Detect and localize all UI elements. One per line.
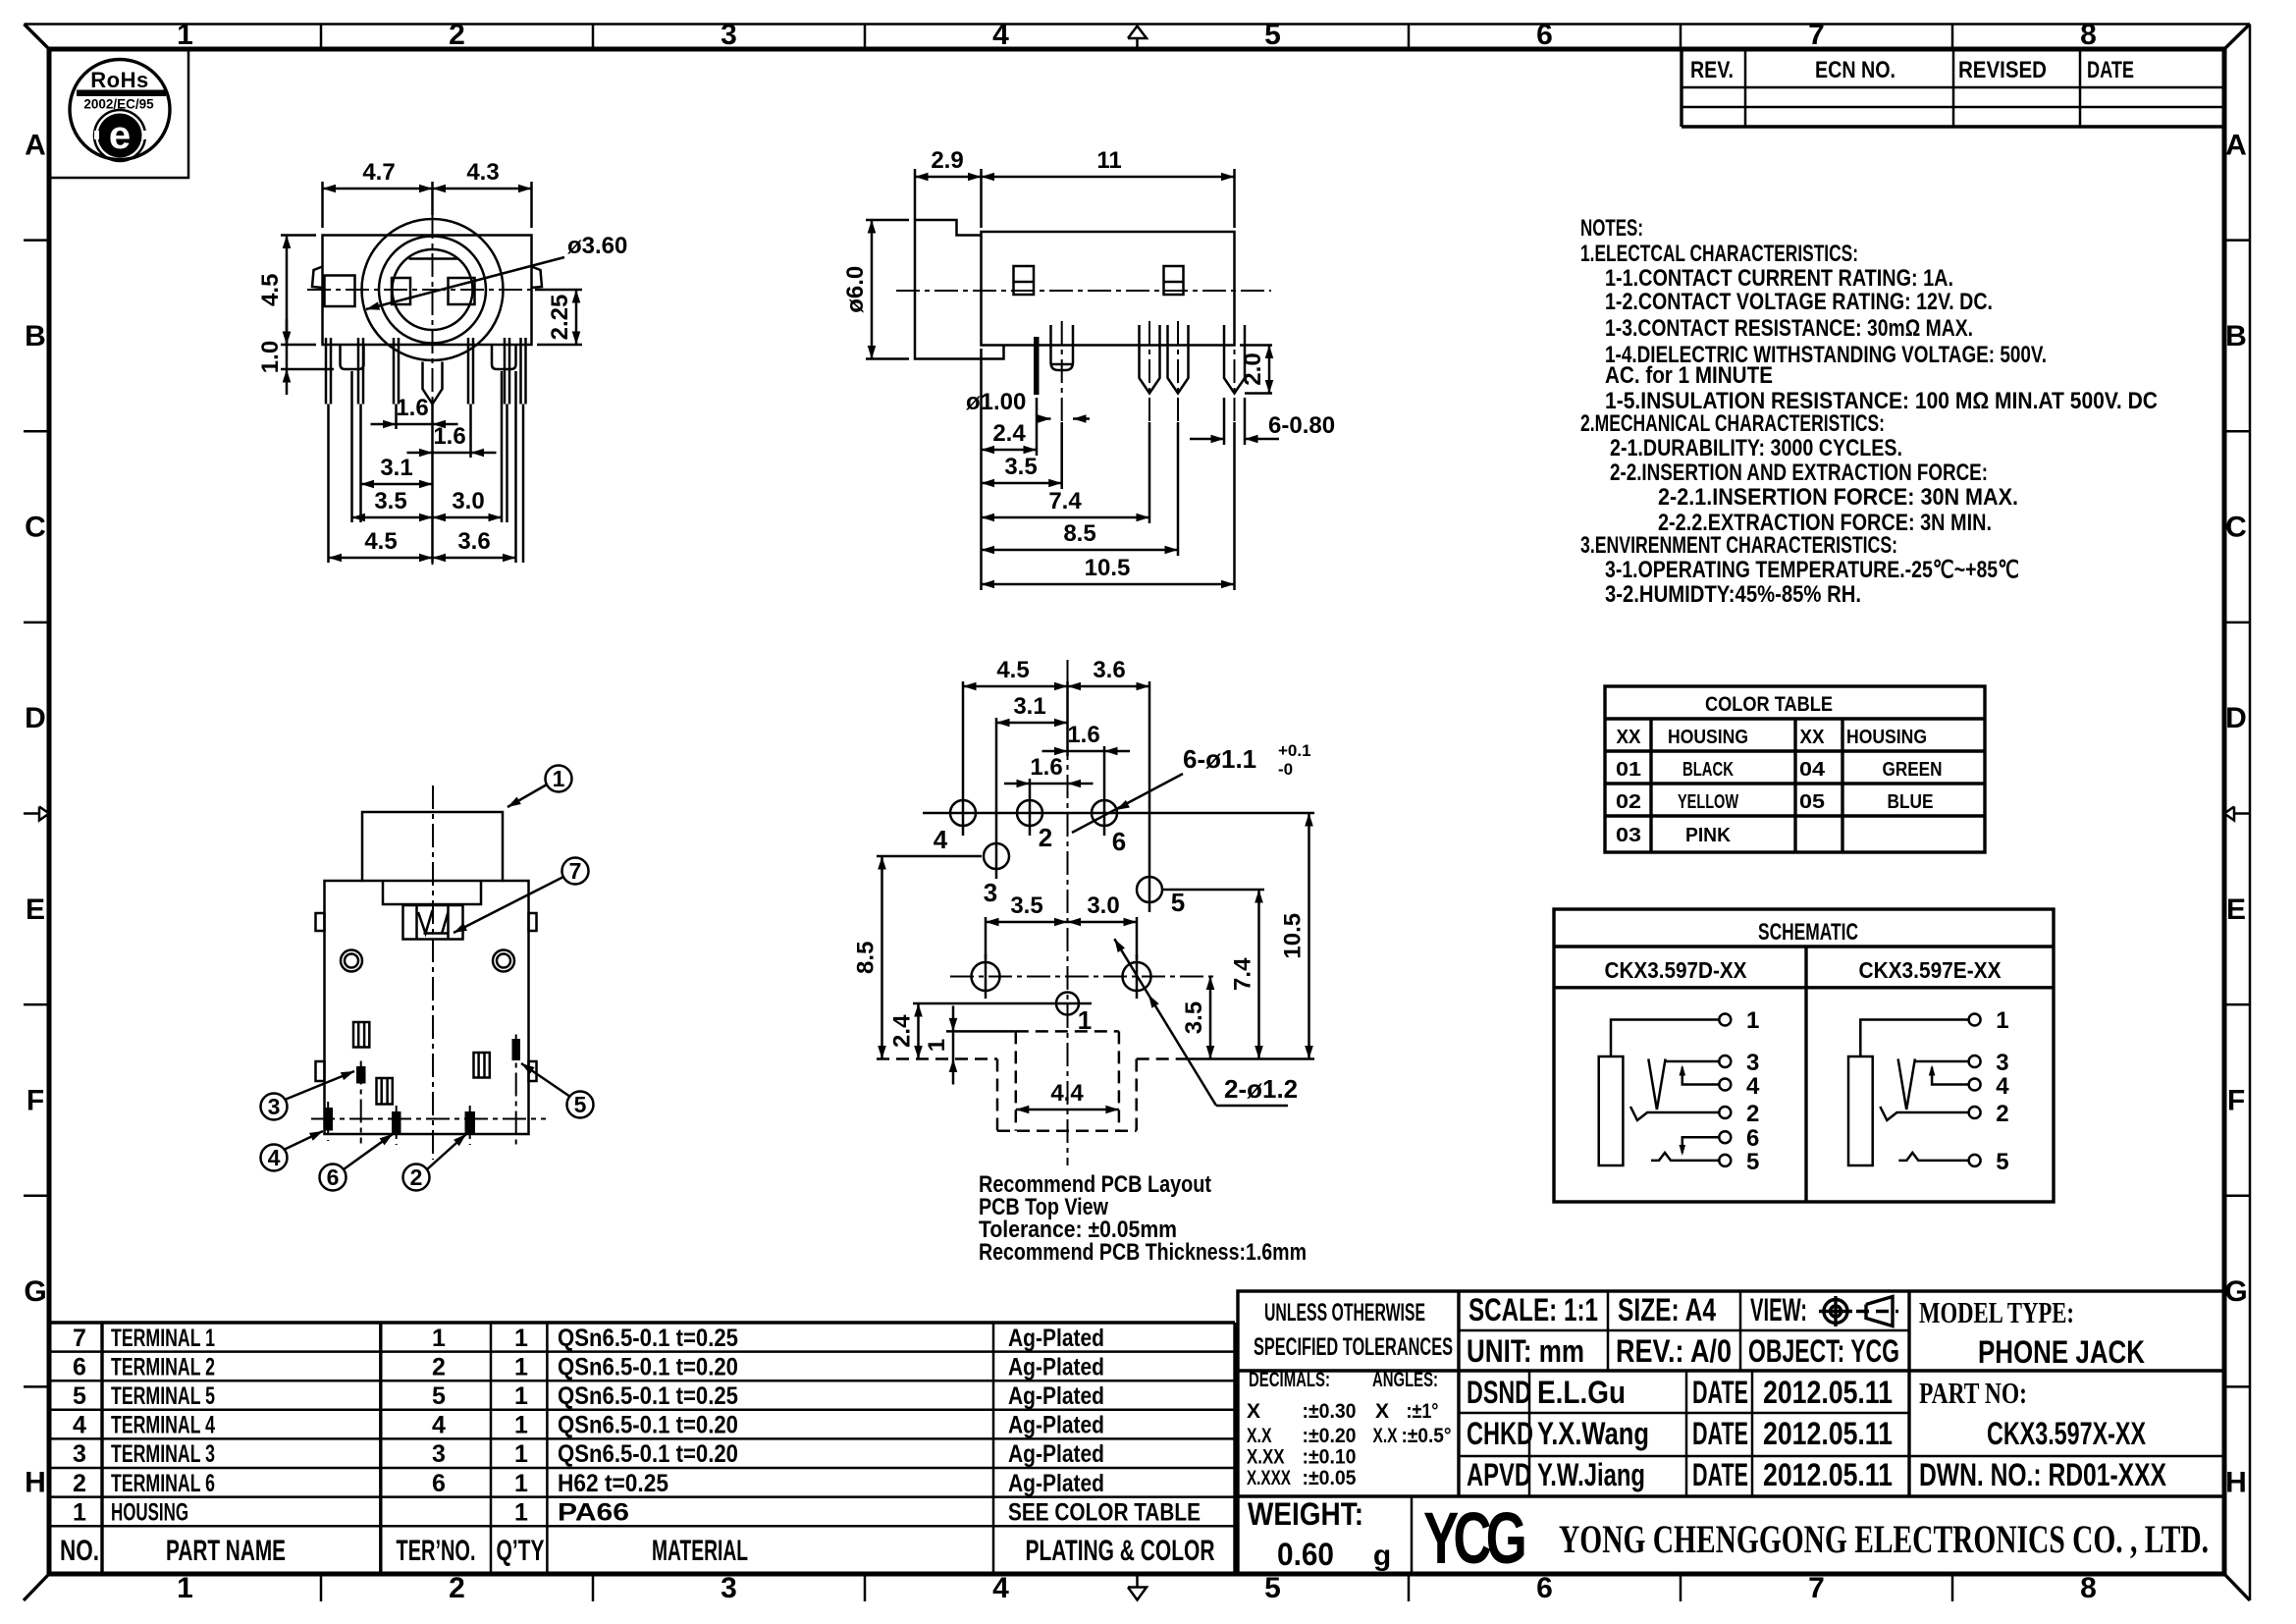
svg-text:X.X: X.X	[1373, 1425, 1398, 1447]
row tick right	[2224, 430, 2250, 433]
svg-text:3.6: 3.6	[457, 528, 490, 555]
corner diagonal top-right	[2224, 25, 2250, 50]
svg-text:G: G	[2224, 1275, 2247, 1308]
svg-text:SPECIFIED TOLERANCES: SPECIFIED TOLERANCES	[1254, 1333, 1453, 1361]
svg-text:4.5: 4.5	[257, 274, 284, 306]
dimension 7.4 side	[982, 516, 1150, 519]
column tick top	[592, 25, 595, 50]
svg-text::±0.20: :±0.20	[1303, 1425, 1357, 1447]
svg-text:REV.: REV.	[1690, 57, 1734, 83]
svg-text:HOUSING: HOUSING	[111, 1498, 188, 1526]
top view terminal pin 3	[356, 1066, 366, 1084]
svg-text:2.25: 2.25	[547, 295, 573, 341]
svg-text:DATE: DATE	[1692, 1375, 1748, 1410]
svg-text:7: 7	[1808, 1572, 1825, 1604]
svg-text:H62 t=0.25: H62 t=0.25	[558, 1470, 668, 1497]
side view terminal pin 3 pointed	[1140, 325, 1160, 394]
svg-text:0.60: 0.60	[1277, 1537, 1334, 1572]
svg-text:5: 5	[574, 1092, 587, 1117]
centering mark bottom	[1128, 1588, 1147, 1600]
view cone symbol	[1866, 1297, 1893, 1326]
svg-text:4.7: 4.7	[362, 159, 395, 186]
pcb dimension 3.0 mid	[1068, 921, 1138, 924]
pcb hole 6	[1092, 800, 1117, 826]
column tick bottom	[1951, 1574, 1954, 1601]
svg-text:6: 6	[73, 1353, 86, 1380]
front view outer barrel circle	[362, 219, 504, 360]
dimension 10.5 side	[982, 583, 1235, 586]
outer right line	[2249, 25, 2252, 1601]
svg-text:3.1: 3.1	[1013, 693, 1045, 720]
corner diagonal top-left	[25, 25, 50, 50]
svg-text:C: C	[25, 512, 46, 544]
svg-text:OBJECT: YCG: OBJECT: YCG	[1748, 1333, 1899, 1369]
column tick bottom	[320, 1574, 323, 1601]
pcb extension lines mid	[985, 917, 988, 959]
svg-text:1: 1	[1996, 1007, 2008, 1034]
side view pin centerlines	[1061, 321, 1063, 422]
svg-text:5: 5	[432, 1382, 446, 1410]
recommended PCB layout drawing	[853, 657, 1315, 1266]
svg-text:1-1.CONTACT CURRENT RATING: 1: 1-1.CONTACT CURRENT RATING: 1A.	[1605, 265, 1953, 292]
svg-text:PINK: PINK	[1685, 825, 1732, 846]
schematic CKX3.597E-XX	[1848, 1007, 2009, 1175]
callout 5	[567, 1092, 594, 1118]
svg-text:REV.: A/0: REV.: A/0	[1616, 1333, 1732, 1369]
wire terminal 4 D	[1682, 1067, 1720, 1085]
svg-text:Ag-Plated: Ag-Plated	[1008, 1412, 1104, 1439]
terminal 1 D	[1719, 1014, 1731, 1026]
svg-text:Ag-Plated: Ag-Plated	[1008, 1470, 1104, 1497]
centering mark left	[24, 812, 39, 815]
break contact terminal 5 D	[1651, 1153, 1719, 1161]
RoHS black bar	[77, 90, 166, 97]
svg-text:B: B	[2225, 320, 2247, 352]
svg-text:QSn6.5-0.1 t=0.20: QSn6.5-0.1 t=0.20	[558, 1440, 738, 1468]
svg-text:E: E	[2226, 893, 2246, 926]
svg-text:XX: XX	[1800, 727, 1826, 748]
svg-text:10.5: 10.5	[1085, 555, 1131, 581]
pcb mounting hole right dia 1.2	[1123, 962, 1151, 991]
svg-text:2: 2	[410, 1164, 423, 1190]
callout 4	[261, 1145, 288, 1171]
svg-text:1-2.CONTACT VOLTAGE RATING: 12: 1-2.CONTACT VOLTAGE RATING: 12V. DC.	[1605, 289, 1993, 315]
svg-text:6: 6	[1746, 1125, 1759, 1152]
side view terminal pin 5 pointed	[1224, 325, 1245, 394]
svg-text:ANGLES:: ANGLES:	[1372, 1369, 1438, 1391]
svg-text:10.5: 10.5	[1280, 913, 1307, 959]
svg-text:2.4: 2.4	[889, 1014, 916, 1048]
svg-text:D: D	[25, 702, 46, 734]
extension lines front view	[321, 182, 324, 228]
dimension 1.6 first	[371, 423, 458, 426]
svg-text:3: 3	[432, 1440, 446, 1468]
column tick bottom	[864, 1574, 867, 1601]
front view jack hole circle	[393, 249, 473, 330]
color table	[1605, 686, 1985, 852]
centering mark top	[1128, 27, 1147, 39]
svg-text:YCG: YCG	[1423, 1497, 1524, 1579]
svg-text:1-3.CONTACT RESISTANCE: 30mΩ M: 1-3.CONTACT RESISTANCE: 30mΩ MAX.	[1605, 315, 1973, 342]
front view right mounting lug	[492, 345, 516, 369]
terminal 2 E	[1969, 1107, 1981, 1118]
svg-text:6-0.80: 6-0.80	[1268, 412, 1335, 439]
dimension 3.1	[361, 483, 433, 486]
svg-text:1.6: 1.6	[433, 423, 465, 450]
jack sleeve E	[1848, 1056, 1873, 1165]
front view terminal pin e	[504, 338, 507, 405]
pcb dimension 2.4	[917, 1003, 920, 1059]
side view terminal pin 1 solid	[1034, 337, 1040, 395]
svg-text:YONG CHENGGONG ELECTRONICS CO.: YONG CHENGGONG ELECTRONICS CO. , LTD.	[1559, 1517, 2209, 1561]
wire terminal 3 D	[1666, 1060, 1720, 1063]
svg-text:H: H	[25, 1467, 46, 1499]
row tick left	[24, 1195, 49, 1198]
pcb dimension 10.5	[1308, 813, 1310, 1059]
RoHS recycle emblem	[94, 110, 145, 161]
svg-text:HOUSING: HOUSING	[1668, 727, 1748, 748]
svg-text:VIEW:: VIEW:	[1750, 1292, 1807, 1327]
front view of phone jack	[257, 159, 627, 565]
row tick right	[2224, 239, 2250, 242]
front view center pin with pointed tip	[423, 362, 443, 405]
svg-text:2012.05.11: 2012.05.11	[1763, 1457, 1893, 1492]
svg-text:ø3.60: ø3.60	[567, 233, 627, 259]
wire to terminal 1 E	[1860, 1020, 1967, 1057]
side view right terminal tab	[1164, 266, 1184, 295]
svg-text:3: 3	[73, 1440, 86, 1468]
svg-text:TERMINAL 2: TERMINAL 2	[111, 1353, 215, 1380]
row tick left	[24, 1003, 49, 1006]
svg-text:H: H	[2225, 1467, 2247, 1499]
column tick top	[1680, 25, 1682, 50]
terminal 5 D	[1719, 1155, 1731, 1166]
svg-text:DSND: DSND	[1467, 1375, 1531, 1410]
svg-text:QSn6.5-0.1 t=0.25: QSn6.5-0.1 t=0.25	[558, 1325, 738, 1352]
svg-text:1: 1	[514, 1353, 528, 1380]
terminal 3 D	[1719, 1056, 1731, 1067]
top view left side tabs	[316, 913, 325, 931]
svg-text:G: G	[24, 1275, 46, 1308]
svg-text:5: 5	[1171, 888, 1185, 917]
svg-text:05: 05	[1799, 791, 1825, 813]
svg-text:TERMINAL 4: TERMINAL 4	[111, 1412, 215, 1439]
svg-text:A: A	[25, 129, 46, 161]
svg-text:PHONE JACK: PHONE JACK	[1978, 1334, 2145, 1370]
svg-text:Y.X.Wang: Y.X.Wang	[1537, 1416, 1649, 1451]
svg-text:3.ENVIRENMENT CHARACTERISTICS:: 3.ENVIRENMENT CHARACTERISTICS:	[1580, 532, 1897, 559]
corner diagonal bottom-right	[2224, 1574, 2250, 1600]
top view right side tabs	[529, 913, 537, 931]
pcb vertical centerline	[1067, 660, 1069, 1165]
svg-text:X: X	[1375, 1400, 1389, 1423]
svg-text:E.L.Gu: E.L.Gu	[1537, 1375, 1626, 1410]
row tick right	[2224, 1003, 2250, 1006]
pcb hole 1	[1056, 993, 1079, 1015]
svg-text:X.XXX: X.XXX	[1247, 1467, 1291, 1489]
svg-text:7: 7	[569, 858, 582, 884]
svg-text:2.0: 2.0	[1240, 352, 1266, 385]
svg-text:NOTES:: NOTES:	[1580, 215, 1643, 242]
svg-text:NO.: NO.	[60, 1535, 99, 1567]
pcb dimension 4.5	[963, 685, 1068, 688]
svg-text:4.3: 4.3	[466, 159, 499, 186]
terminal 4 E	[1969, 1079, 1981, 1091]
svg-text:PA66: PA66	[558, 1498, 629, 1526]
svg-text:CHKD: CHKD	[1467, 1416, 1533, 1451]
pcb mounting hole left dia 1.2	[972, 962, 1000, 991]
RoHS circle	[70, 60, 170, 160]
side view body outline	[982, 232, 1235, 346]
svg-text:8: 8	[2080, 1572, 2097, 1604]
svg-text::±0.10: :±0.10	[1303, 1446, 1357, 1469]
svg-text:2-2.1.INSERTION FORCE: 30N M: 2-2.1.INSERTION FORCE: 30N MAX.	[1658, 484, 2018, 511]
svg-text:CKX3.597D-XX: CKX3.597D-XX	[1605, 957, 1748, 983]
svg-text:3-1.OPERATING TEMPERATURE.-25℃: 3-1.OPERATING TEMPERATURE.-25℃~+85℃	[1605, 557, 2019, 583]
svg-text:2: 2	[1996, 1101, 2008, 1127]
front view right latch bump	[532, 267, 543, 289]
svg-text:2.MECHANICAL CHARACTERISTICS:: 2.MECHANICAL CHARACTERISTICS:	[1580, 410, 1885, 437]
pcb extension lines top	[962, 681, 965, 791]
svg-text:1: 1	[514, 1382, 528, 1410]
svg-text:ø6.0: ø6.0	[842, 266, 869, 313]
svg-text:B: B	[25, 320, 46, 352]
switch contact terminal 2 E	[1880, 1107, 1968, 1120]
front view left contact window	[392, 278, 410, 304]
svg-text:3: 3	[721, 1572, 737, 1604]
svg-text:4: 4	[992, 1572, 1009, 1604]
svg-text:6: 6	[1536, 1572, 1553, 1604]
svg-text:2.4: 2.4	[992, 420, 1026, 447]
front view left mounting lug	[341, 345, 364, 369]
front view centerline horizontal	[307, 289, 552, 291]
svg-text:2-2.INSERTION AND EXTRACTION F: 2-2.INSERTION AND EXTRACTION FORCE:	[1610, 460, 1988, 486]
top view spring contact box	[403, 905, 463, 940]
callout 7 spring	[562, 858, 589, 885]
svg-text:3.5: 3.5	[1004, 454, 1037, 480]
svg-text:5: 5	[1746, 1149, 1759, 1175]
svg-text:03: 03	[1616, 825, 1641, 846]
svg-text:SCALE: 1:1: SCALE: 1:1	[1468, 1292, 1598, 1327]
dimension 2.25 right	[575, 290, 578, 345]
svg-text:1.0: 1.0	[257, 341, 284, 373]
corner diagonal bottom-left	[24, 1574, 49, 1600]
svg-text:F: F	[27, 1085, 44, 1117]
svg-text:5: 5	[1996, 1149, 2008, 1175]
svg-text:QSn6.5-0.1 t=0.20: QSn6.5-0.1 t=0.20	[558, 1412, 738, 1439]
svg-text:8: 8	[2080, 19, 2097, 51]
svg-text::±0.05: :±0.05	[1303, 1467, 1357, 1489]
row tick right	[2224, 1385, 2250, 1388]
svg-text:Q’TY: Q’TY	[497, 1535, 545, 1567]
svg-text:DATE: DATE	[1692, 1457, 1748, 1492]
svg-text:-0: -0	[1278, 760, 1293, 779]
terminal 3 E	[1969, 1056, 1981, 1067]
dimension 3.5 side	[982, 482, 1062, 485]
svg-text:TERMINAL 1: TERMINAL 1	[111, 1325, 215, 1352]
notes text block	[1580, 215, 2158, 608]
front view left latch bump	[312, 267, 323, 289]
callout 3	[261, 1094, 288, 1120]
svg-text::±1°: :±1°	[1407, 1400, 1439, 1423]
svg-text:1: 1	[177, 1572, 193, 1604]
svg-text:1: 1	[73, 1498, 86, 1526]
column tick top	[320, 25, 323, 50]
front view body	[323, 236, 532, 346]
svg-text:1: 1	[514, 1412, 528, 1439]
svg-text:REVISED: REVISED	[1958, 57, 2047, 83]
dimension 2.4 side	[982, 449, 1038, 452]
dimension 3.0 front	[433, 516, 503, 519]
svg-text:2: 2	[432, 1353, 446, 1380]
pcb dashed notch outer	[996, 1059, 999, 1131]
svg-text:1: 1	[924, 1039, 950, 1052]
svg-text:3.0: 3.0	[452, 488, 484, 514]
svg-text:5: 5	[1264, 19, 1281, 51]
front view terminal pin b	[357, 338, 360, 405]
pcb dimension 3.5 right	[1209, 977, 1212, 1059]
dimension 11	[982, 176, 1235, 179]
svg-text::±0.30: :±0.30	[1303, 1400, 1357, 1423]
dimension 2.9	[915, 176, 982, 179]
svg-text:4: 4	[1746, 1073, 1760, 1100]
svg-text:MODEL TYPE:: MODEL TYPE:	[1919, 1295, 2074, 1329]
terminal 2 D	[1719, 1107, 1731, 1118]
svg-text:2: 2	[449, 1572, 465, 1604]
pcb mounting holes axis	[950, 976, 1215, 978]
svg-text:TER’NO.: TER’NO.	[397, 1535, 476, 1567]
row tick right	[2224, 1195, 2250, 1198]
svg-text:5: 5	[73, 1382, 86, 1410]
svg-text:4.5: 4.5	[364, 528, 397, 555]
svg-text:CKX3.597E-XX: CKX3.597E-XX	[1859, 957, 2002, 983]
top view vertical centerline	[432, 785, 434, 1160]
pcb hole 3	[984, 843, 1009, 869]
dimension 3.6 bottom	[433, 557, 516, 560]
top view terminal pin 2	[465, 1111, 476, 1134]
svg-text:2: 2	[73, 1470, 86, 1497]
parts list table	[49, 1323, 1235, 1574]
svg-text:Ag-Plated: Ag-Plated	[1008, 1382, 1104, 1410]
dimension 8.5 side	[982, 549, 1179, 552]
top view terminal pin 5	[512, 1039, 521, 1060]
top view spring contact blades	[418, 910, 433, 934]
tip contact D	[1648, 1058, 1657, 1110]
side view terminal pin 2 u-shape	[1051, 325, 1074, 370]
svg-text:CKX3.597X-XX: CKX3.597X-XX	[1987, 1416, 2146, 1451]
svg-text:1: 1	[177, 19, 193, 51]
outer top line	[25, 23, 2251, 26]
pcb dimension 3.1	[996, 722, 1068, 725]
svg-text:SIZE: A4: SIZE: A4	[1618, 1292, 1716, 1327]
row tick left	[24, 622, 49, 624]
column tick top	[1951, 25, 1954, 50]
dimension 1.6 second	[407, 452, 497, 455]
svg-text:1: 1	[514, 1498, 528, 1526]
RoHS logo box	[49, 49, 188, 178]
svg-text:3: 3	[1996, 1050, 2008, 1076]
svg-text:GREEN: GREEN	[1883, 759, 1943, 781]
side view of phone jack	[842, 147, 1335, 590]
wire terminal 4 E	[1932, 1067, 1969, 1085]
schematic CKX3.597D-XX	[1599, 1007, 1760, 1175]
side view terminal pin 4 pointed	[1168, 325, 1189, 394]
svg-text:A: A	[2225, 129, 2247, 161]
svg-text:COLOR TABLE: COLOR TABLE	[1705, 693, 1833, 716]
row tick left	[24, 1385, 49, 1388]
side view barrel outline	[915, 220, 1004, 359]
svg-text:8.5: 8.5	[853, 942, 880, 974]
svg-text:1.6: 1.6	[1067, 722, 1099, 748]
pcb step reference line	[946, 1030, 1016, 1033]
dimension 4.3	[433, 188, 532, 190]
svg-text:X.XX: X.XX	[1247, 1446, 1285, 1469]
svg-text:E: E	[26, 893, 45, 926]
centering mark right	[2234, 812, 2250, 815]
top view terminal slot B	[377, 1078, 393, 1105]
pcb dashed body outline	[877, 1057, 997, 1060]
pcb hole 2	[1017, 800, 1042, 826]
wire to terminal 1 D	[1611, 1020, 1718, 1057]
svg-text:1: 1	[553, 766, 565, 791]
svg-text:4.5: 4.5	[996, 657, 1029, 683]
jack sleeve D	[1599, 1056, 1624, 1165]
column tick top	[1408, 25, 1411, 50]
tip contact E	[1898, 1058, 1907, 1110]
svg-text:TERMINAL 3: TERMINAL 3	[111, 1440, 215, 1468]
pcb dimension 1.6 right of center	[1042, 750, 1131, 753]
front view terminal pin f	[519, 338, 522, 405]
svg-text:DECIMALS:: DECIMALS:	[1249, 1369, 1330, 1391]
svg-text:SCHEMATIC: SCHEMATIC	[1758, 919, 1858, 946]
column tick bottom	[592, 1574, 595, 1601]
dimension 4.7	[323, 188, 433, 190]
svg-text:BLACK: BLACK	[1682, 759, 1734, 781]
svg-text:01: 01	[1616, 759, 1641, 781]
top view right mounting hole	[493, 950, 514, 972]
wire terminal 6 D	[1682, 1137, 1720, 1153]
front view terminal pin a	[325, 338, 328, 405]
row tick right	[2224, 622, 2250, 624]
top view left mounting hole	[341, 950, 362, 972]
svg-text:1: 1	[1746, 1007, 1759, 1034]
svg-text:2012.05.11: 2012.05.11	[1763, 1375, 1893, 1410]
svg-text:3: 3	[268, 1094, 281, 1119]
column tick bottom	[1408, 1574, 1411, 1601]
svg-text:1: 1	[514, 1470, 528, 1497]
svg-text:g: g	[1373, 1540, 1391, 1572]
svg-text:2-1.DURABILITY: 3000 CYCLES.: 2-1.DURABILITY: 3000 CYCLES.	[1610, 435, 1902, 461]
svg-text:3.5: 3.5	[374, 488, 406, 514]
dimension diameter 6.0	[871, 220, 874, 359]
pcb dimension 1	[952, 1005, 955, 1084]
pcb dimension 3.5 mid	[986, 921, 1068, 924]
svg-text:3.5: 3.5	[1010, 893, 1042, 919]
svg-text:3-2.HUMIDTY:45%-85% RH.: 3-2.HUMIDTY:45%-85% RH.	[1605, 581, 1861, 608]
pcb hole 5	[1137, 877, 1162, 902]
svg-text:BLUE: BLUE	[1888, 791, 1934, 813]
svg-text:3.5: 3.5	[1181, 1001, 1207, 1034]
svg-text:X: X	[1247, 1400, 1260, 1423]
svg-text:C: C	[2225, 512, 2247, 544]
svg-text:4: 4	[73, 1412, 86, 1439]
svg-text:4: 4	[268, 1145, 281, 1170]
dimension 4.5 bottom	[329, 557, 433, 560]
svg-text:F: F	[2227, 1085, 2245, 1117]
svg-text:MATERIAL: MATERIAL	[652, 1535, 748, 1567]
svg-text:PART NO:: PART NO:	[1919, 1376, 2027, 1410]
svg-text:Recommend PCB Thickness:1.6mm: Recommend PCB Thickness:1.6mm	[979, 1239, 1307, 1266]
